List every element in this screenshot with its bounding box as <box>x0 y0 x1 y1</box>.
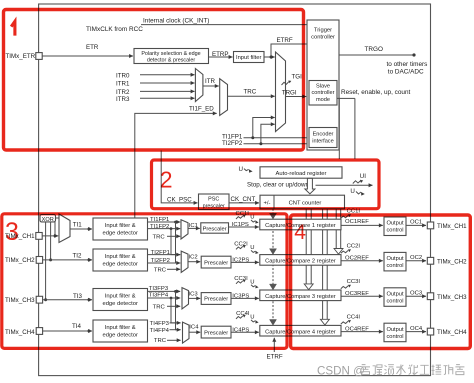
wire IC4PS <box>231 331 259 333</box>
register capture/compare 3 <box>260 290 341 301</box>
svg-text:TRC: TRC <box>153 234 166 240</box>
svg-text:CSDN @: CSDN @ <box>317 365 365 378</box>
wire OC2 <box>406 260 426 262</box>
svg-text:TRC: TRC <box>154 338 167 344</box>
port TIMx_CH3 output <box>427 293 433 300</box>
wire dashed capture transfer <box>272 209 274 324</box>
wire crosslink TI1FP1 to row2 <box>176 222 181 263</box>
svg-text:3: 3 <box>5 218 19 246</box>
svg-text:ITR0: ITR0 <box>116 72 130 79</box>
wire TRC row1 <box>167 235 180 237</box>
svg-text:control: control <box>386 228 403 234</box>
wire OC4REF <box>341 331 383 333</box>
wire TI1 <box>70 228 92 230</box>
wire XOR output <box>56 217 60 219</box>
svg-text:TRGO: TRGO <box>365 46 383 53</box>
wire TI3FP4 <box>148 297 181 299</box>
wire TRC to trigger mux <box>228 95 275 97</box>
svg-text:Polarity selection & edge: Polarity selection & edge <box>141 51 200 57</box>
svg-text:CK_PSC: CK_PSC <box>167 196 192 203</box>
wire OC3REF <box>341 295 383 297</box>
wire IC4 <box>189 331 200 333</box>
svg-text:TIMx_CH4: TIMx_CH4 <box>437 329 467 336</box>
svg-text:Input filter &: Input filter & <box>105 294 136 300</box>
svg-text:U: U <box>239 166 243 173</box>
block encoder interface <box>309 128 337 148</box>
svg-text:TRC: TRC <box>154 268 167 274</box>
register capture/compare 4 <box>260 325 341 336</box>
wire ITR2 <box>140 90 195 92</box>
svg-text:CC3I: CC3I <box>234 276 248 282</box>
block input filter (ETR) <box>234 52 265 63</box>
svg-text:CC4I: CC4I <box>347 315 361 321</box>
block slave controller mode <box>309 81 337 106</box>
svg-text:TI4: TI4 <box>72 323 81 330</box>
register capture/compare 1 <box>260 219 341 230</box>
svg-text:TIMx_CH3: TIMx_CH3 <box>437 294 467 301</box>
svg-text:detector & prescaler: detector & prescaler <box>147 57 195 63</box>
mux IC2 selector <box>181 251 188 272</box>
wire CK_PSC <box>161 151 197 203</box>
svg-text:TIMx_CH4: TIMx_CH4 <box>5 329 35 336</box>
svg-text:TRGI: TRGI <box>282 90 297 97</box>
svg-text:Output: Output <box>386 327 403 333</box>
wire ITR to TRC mux <box>203 85 219 87</box>
block prescaler 3 <box>201 293 231 305</box>
svg-text:TIMxCLK from RCC: TIMxCLK from RCC <box>86 26 143 33</box>
node ETRF junction <box>270 56 273 59</box>
svg-text:2: 2 <box>160 167 173 193</box>
block output control 2 <box>384 252 406 271</box>
wire update event <box>316 184 373 186</box>
svg-text:Input filter &: Input filter & <box>105 254 136 260</box>
svg-text:Prescaler: Prescaler <box>203 226 227 232</box>
wire OC1 <box>406 224 426 226</box>
mux IC4 selector <box>183 322 190 343</box>
wire ETRF into trigger mux <box>271 56 275 58</box>
gate XOR <box>40 215 56 222</box>
svg-text:Input filter &: Input filter & <box>105 325 136 331</box>
wire XOR tap CH1 <box>54 222 56 236</box>
svg-text:edge detector: edge detector <box>102 230 138 236</box>
svg-text:TRC: TRC <box>244 88 257 95</box>
svg-text:U: U <box>250 279 254 285</box>
pipe compare transfer B <box>322 209 324 319</box>
wire OC1REF <box>341 224 383 226</box>
mux TRC selector <box>220 79 228 116</box>
svg-text:U: U <box>250 245 254 251</box>
wire ITR0 <box>140 74 195 76</box>
svg-text:Input filter &: Input filter & <box>105 223 136 229</box>
svg-text:to DAC/ADC: to DAC/ADC <box>388 68 424 75</box>
arrowheads of dashed transfer into registers <box>270 213 277 219</box>
wire TI3FP3 <box>148 290 181 292</box>
block prescaler 4 <box>201 326 231 338</box>
svg-text:Slave: Slave <box>316 84 330 90</box>
wire XOR tap CH2 <box>50 222 52 260</box>
mux IC3 selector <box>182 288 189 309</box>
wire TI1FP1 riser to trigger mux <box>253 118 275 138</box>
wire TRGO <box>339 54 414 56</box>
svg-text:TI2: TI2 <box>73 253 82 260</box>
svg-text:Reset, enable, up, count: Reset, enable, up, count <box>341 89 411 96</box>
svg-text:Prescaler: Prescaler <box>204 330 228 336</box>
svg-text:CNT counter: CNT counter <box>289 201 322 207</box>
svg-text:TIMx_ETR: TIMx_ETR <box>6 53 36 60</box>
wire ETR <box>42 55 133 57</box>
wire TI1FP2 <box>148 228 181 230</box>
svg-text:UI: UI <box>360 173 366 180</box>
svg-text:edge detector: edge detector <box>102 261 138 267</box>
svg-text:control: control <box>386 334 403 340</box>
svg-text:ITR1: ITR1 <box>116 81 130 88</box>
wire CK_INT <box>141 24 307 26</box>
event squiggle UI <box>353 181 361 184</box>
wire IC2PS <box>231 261 259 263</box>
wire TI4FP4 <box>170 329 181 331</box>
wire TI4 <box>43 330 92 332</box>
wire TRC row2 <box>167 268 180 270</box>
block output control 4 <box>384 323 406 342</box>
svg-text:IC4: IC4 <box>189 325 199 331</box>
svg-text:TI4FP4: TI4FP4 <box>150 328 170 334</box>
svg-text:Encoder: Encoder <box>313 132 334 138</box>
svg-text:controller: controller <box>311 90 334 96</box>
arrow auto-reload to counter (hollow) <box>305 178 315 193</box>
annotation box 3 <box>2 214 287 349</box>
block prescaler 2 <box>201 256 231 268</box>
wire TI2FP2 to encoder interface <box>244 143 308 145</box>
svg-text:OC2: OC2 <box>410 255 422 261</box>
svg-text:TIMx_CH2: TIMx_CH2 <box>437 258 467 265</box>
wire IC2 <box>188 261 200 263</box>
block trigger controller <box>307 20 339 150</box>
block input filter and edge detector 4 <box>93 320 148 342</box>
mux ITR selector <box>195 69 203 102</box>
svg-text:U: U <box>250 315 254 321</box>
wire crosslink TI1FP2 to row2 <box>171 229 180 255</box>
svg-text:TI1F_ED: TI1F_ED <box>189 105 214 112</box>
svg-text:TI2FP1: TI2FP1 <box>151 250 170 256</box>
wire TI2FP2 riser to trigger mux <box>261 124 275 143</box>
svg-text:TIMx_CH2: TIMx_CH2 <box>5 257 35 264</box>
wire TI2FP2 <box>148 262 181 264</box>
annotation box 4 <box>291 215 471 349</box>
wire ITR3 <box>140 97 195 99</box>
wire ETRP <box>209 56 233 58</box>
wire IC1PS <box>229 226 259 228</box>
pipe compare transfer A <box>305 209 307 284</box>
svg-text:Internal clock (CK_INT): Internal clock (CK_INT) <box>143 18 209 25</box>
port TIMx_CH2 output <box>427 257 433 264</box>
svg-text:Prescaler: Prescaler <box>204 297 228 303</box>
svg-text:IC2: IC2 <box>189 255 198 261</box>
svg-text:+/-: +/- <box>264 200 271 206</box>
svg-text:edge detector: edge detector <box>102 332 138 338</box>
svg-text:TI4FP3: TI4FP3 <box>150 321 170 327</box>
svg-text:control: control <box>386 263 403 269</box>
wire CK_CNT <box>229 202 259 204</box>
svg-text:Output: Output <box>386 291 403 297</box>
svg-text:mode: mode <box>316 97 330 103</box>
pipe compare transfer C <box>335 209 337 249</box>
register capture/compare 2 <box>260 255 341 266</box>
svg-text:XOR: XOR <box>42 217 54 223</box>
block output control 1 <box>384 217 406 236</box>
svg-text:ETR: ETR <box>86 44 99 51</box>
svg-text:Output: Output <box>386 256 403 262</box>
svg-text:U: U <box>250 215 254 221</box>
wire ITR1 <box>140 82 195 84</box>
wire TI4FP3 <box>170 322 181 324</box>
svg-text:OC3: OC3 <box>410 290 423 296</box>
svg-text:Input filter: Input filter <box>236 55 262 61</box>
svg-text:Output: Output <box>386 221 403 227</box>
wire crosslink TI3FP3 to row4 <box>176 291 181 329</box>
wire TRGI to slave controller <box>286 96 307 98</box>
block input filter and edge detector 3 <box>93 289 148 311</box>
svg-text:controller: controller <box>311 35 335 41</box>
wire OC2REF <box>341 260 383 262</box>
wire OC4 <box>406 331 426 333</box>
register auto-reload <box>260 167 342 178</box>
svg-text:OC1: OC1 <box>410 220 422 226</box>
mux trigger TRGI selector <box>276 52 286 132</box>
wire TI1FP1 <box>148 221 181 223</box>
wire TRC row3 <box>167 305 180 307</box>
annotation box 1 <box>4 10 304 151</box>
block polarity selection and edge detector and prescaler <box>134 49 209 64</box>
svg-text:TGI: TGI <box>292 74 303 81</box>
svg-text:CC2I: CC2I <box>234 241 248 247</box>
svg-text:Auto-reload register: Auto-reload register <box>276 171 327 177</box>
mux TI1 selector <box>59 214 70 243</box>
svg-text:Prescaler: Prescaler <box>204 260 228 266</box>
port TIMx_CH1 output <box>427 222 433 229</box>
svg-text:control: control <box>386 298 403 304</box>
wire ETRF to trigger controller <box>264 44 307 57</box>
svg-text:ETRF: ETRF <box>277 37 293 44</box>
wire OC3 <box>406 295 426 297</box>
wire ETRF bottom arrow into register 4 <box>273 338 275 352</box>
svg-text:interface: interface <box>312 139 333 145</box>
annotation box 2 <box>152 160 380 209</box>
svg-text:Capture/Compare 3 register: Capture/Compare 3 register <box>265 294 336 300</box>
svg-text:CC3I: CC3I <box>347 279 361 285</box>
svg-text:CK_CNT: CK_CNT <box>231 196 256 203</box>
wire CH1 to TI1 mux <box>42 235 58 237</box>
wire IC3 <box>189 297 201 299</box>
svg-text:ITR3: ITR3 <box>116 96 130 103</box>
wire slave mode control path <box>337 98 339 159</box>
svg-text:TIMx_CH3: TIMx_CH3 <box>5 297 35 304</box>
svg-text:TIMx_CH1: TIMx_CH1 <box>437 223 467 230</box>
port TIMx_CH4 output <box>427 328 433 335</box>
wire TI1FP1 to encoder interface <box>244 137 308 139</box>
svg-text:Trigger: Trigger <box>314 28 332 34</box>
counter CNT with +/- cell <box>260 195 345 209</box>
svg-text:Capture/Compare 2 register: Capture/Compare 2 register <box>265 259 336 265</box>
block input filter and edge detector 1 <box>93 218 148 240</box>
svg-text:4: 4 <box>294 221 306 244</box>
annotation numeral 1 <box>11 21 15 35</box>
svg-text:TI1: TI1 <box>73 222 82 229</box>
svg-text:to other timers: to other timers <box>387 61 428 68</box>
wire TI3 <box>43 299 92 301</box>
svg-text:OC4: OC4 <box>410 326 423 332</box>
svg-text:PSC: PSC <box>208 197 219 203</box>
svg-text:U: U <box>350 188 354 195</box>
block output control 3 <box>384 288 406 307</box>
svg-text:OC1REF: OC1REF <box>345 219 369 225</box>
mux IC1 selector <box>181 220 188 239</box>
wire IC1 <box>188 227 200 229</box>
wire TI1F_ED <box>135 113 217 218</box>
svg-text:TI2FP2: TI2FP2 <box>222 140 243 147</box>
block input filter and edge detector 2 <box>93 249 148 271</box>
svg-text:IC3: IC3 <box>189 292 199 298</box>
block PSC prescaler <box>199 194 230 210</box>
svg-text:TRC: TRC <box>153 305 166 311</box>
svg-text:Capture/Compare 4 register: Capture/Compare 4 register <box>265 329 336 335</box>
wire crosslink TI3FP4 to row4 <box>171 298 180 323</box>
wire XOR tap CH3 <box>45 222 47 300</box>
event squiggle U (update) <box>356 192 361 195</box>
wire IC3PS <box>231 297 259 299</box>
svg-text:ITR: ITR <box>205 78 215 85</box>
wire TI2 <box>43 259 92 261</box>
wire TI2FP1 <box>148 254 181 256</box>
svg-text:TI3: TI3 <box>73 293 82 300</box>
svg-text:ETRF: ETRF <box>267 354 283 361</box>
svg-text:Stop, clear or up/down: Stop, clear or up/down <box>247 181 309 188</box>
block prescaler 1 <box>201 223 229 233</box>
wire TRC row4 <box>167 339 181 341</box>
svg-text:CC2I: CC2I <box>347 244 361 250</box>
svg-text:edge detector: edge detector <box>102 301 138 307</box>
